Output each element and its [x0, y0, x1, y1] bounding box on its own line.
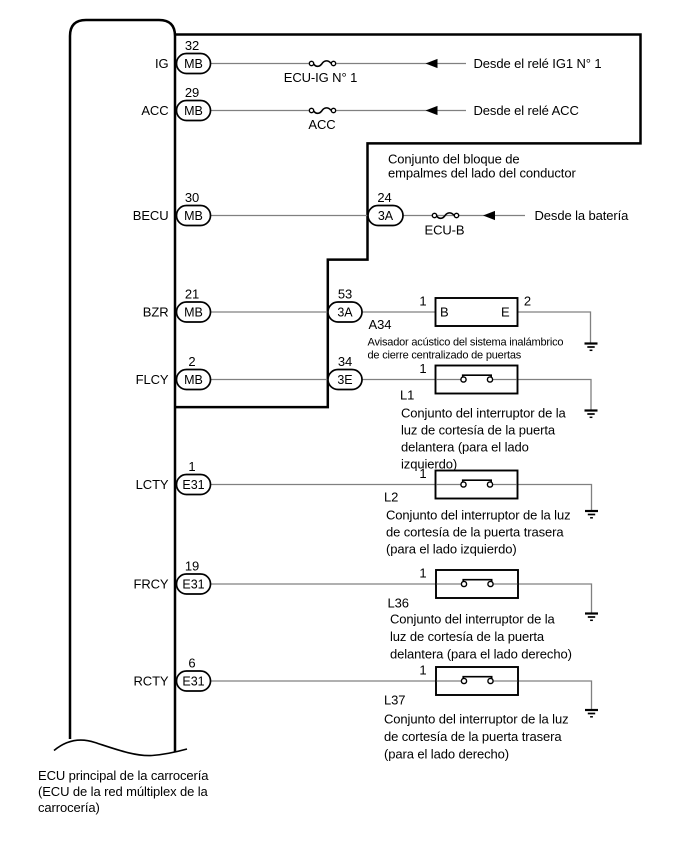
- connector oval MB (BZR pin 21): [177, 302, 211, 322]
- ground for A34: [585, 344, 598, 351]
- svg-text:3E: 3E: [337, 373, 352, 387]
- wire RCTY row right of L37 to ground drop: [493, 681, 591, 710]
- wire ACC row: [210, 110, 309, 112]
- svg-text:53: 53: [338, 287, 352, 302]
- svg-text:RCTY: RCTY: [134, 674, 169, 689]
- label ECU principal de la carrocería: [38, 768, 209, 815]
- wire FLCY row: [210, 379, 329, 381]
- wire RCTY row: [210, 680, 461, 682]
- svg-text:2: 2: [524, 294, 531, 309]
- svg-text:MB: MB: [184, 209, 203, 223]
- svg-text:1: 1: [419, 294, 426, 309]
- wire ACC row right of fuse: [337, 110, 467, 112]
- junction block outline (Conjunto del bloque de empalmes del lado del conductor): [175, 35, 641, 408]
- svg-text:MB: MB: [184, 306, 203, 320]
- svg-text:IG: IG: [155, 56, 169, 71]
- fuse ACC: [308, 108, 335, 132]
- svg-text:L37: L37: [384, 693, 405, 708]
- wire IG row right of fuse: [337, 63, 467, 65]
- svg-text:ECU-IG N° 1: ECU-IG N° 1: [284, 70, 357, 85]
- svg-text:LCTY: LCTY: [136, 477, 169, 492]
- svg-text:empalmes del lado del conducto: empalmes del lado del conductor: [388, 166, 576, 181]
- svg-text:1: 1: [419, 466, 426, 481]
- svg-text:32: 32: [185, 38, 199, 53]
- wire LCTY row right of L2 to ground drop: [493, 485, 592, 512]
- connector oval 3E (pin 34): [328, 370, 362, 390]
- svg-text:de cortesía de la puerta trase: de cortesía de la puerta trasera: [386, 525, 564, 540]
- connector oval E31 (FRCY pin 19): [177, 574, 211, 594]
- ECU block body outline (ECU principal de la carrocería): [70, 20, 175, 752]
- arrow from relay ACC: [426, 106, 438, 115]
- connector oval 3A (pin 24): [368, 206, 403, 226]
- switch L1 box: [436, 366, 518, 394]
- connector oval 3A (pin 53): [328, 302, 362, 322]
- fuse ECU-IG N° 1: [284, 61, 357, 85]
- wire FRCY row: [210, 583, 461, 585]
- label Conjunto del interruptor (L36): [390, 612, 572, 662]
- svg-text:Conjunto del interruptor de la: Conjunto del interruptor de la: [390, 612, 556, 627]
- svg-text:MB: MB: [184, 104, 203, 118]
- svg-text:FLCY: FLCY: [136, 372, 169, 387]
- label Avisador acústico: [368, 337, 564, 362]
- svg-text:L36: L36: [388, 596, 409, 611]
- svg-text:21: 21: [185, 287, 199, 302]
- wire BECU row: [210, 215, 368, 217]
- svg-text:Conjunto del bloque de: Conjunto del bloque de: [388, 152, 520, 167]
- svg-text:ACC: ACC: [308, 117, 335, 132]
- svg-text:Desde la batería: Desde la batería: [535, 208, 630, 223]
- svg-text:ECU-B: ECU-B: [425, 223, 465, 238]
- svg-text:BECU: BECU: [133, 208, 169, 223]
- svg-text:(para el lado izquierdo): (para el lado izquierdo): [386, 542, 517, 557]
- svg-text:delantera (para el lado: delantera (para el lado: [401, 440, 529, 455]
- svg-text:B: B: [440, 305, 449, 320]
- svg-text:1: 1: [419, 566, 426, 581]
- ground for L36: [585, 614, 598, 621]
- wavy torn bottom edge of ECU block: [54, 740, 187, 755]
- wire FLCY row inside/right of L1 to ground drop: [493, 380, 591, 411]
- svg-text:1: 1: [188, 459, 195, 474]
- wire LCTY row: [210, 484, 461, 486]
- fuse ECU-B: [425, 213, 465, 238]
- label Conjunto del interruptor (L1): [401, 406, 567, 472]
- svg-text:izquierdo): izquierdo): [401, 457, 457, 472]
- svg-text:E31: E31: [182, 675, 204, 689]
- connector oval E31 (LCTY pin 1): [177, 475, 211, 495]
- svg-text:MB: MB: [184, 57, 203, 71]
- wire BZR row from 3A to buzzer: [362, 311, 436, 313]
- svg-text:BZR: BZR: [143, 305, 169, 320]
- svg-text:29: 29: [185, 85, 199, 100]
- connector oval MB (ACC pin 29): [177, 101, 211, 121]
- connector oval E31 (RCTY pin 6): [177, 671, 211, 691]
- wire BZR row from buzzer to ground drop: [518, 312, 591, 343]
- svg-text:Avisador acústico del sistema: Avisador acústico del sistema inalámbric…: [368, 337, 564, 349]
- svg-text:2: 2: [188, 354, 195, 369]
- svg-text:delantera (para el lado derech: delantera (para el lado derecho): [390, 647, 572, 662]
- svg-text:luz de cortesía de la puerta: luz de cortesía de la puerta: [390, 629, 545, 644]
- svg-text:E: E: [501, 305, 510, 320]
- ground for L2: [585, 511, 598, 518]
- svg-text:de cortesía de la puerta trase: de cortesía de la puerta trasera: [384, 729, 562, 744]
- svg-text:ECU principal de la carrocería: ECU principal de la carrocería: [38, 768, 209, 783]
- svg-text:MB: MB: [184, 373, 203, 387]
- arrow from battery: [483, 211, 495, 220]
- wire FRCY row right of L36 to ground drop: [493, 584, 591, 613]
- wire BECU row right of 3A: [403, 215, 525, 217]
- svg-text:luz de cortesía de la puerta: luz de cortesía de la puerta: [401, 423, 556, 438]
- connector oval MB (BECU pin 30): [177, 206, 211, 226]
- svg-text:FRCY: FRCY: [134, 577, 169, 592]
- label Conjunto del interruptor (L2): [386, 508, 571, 557]
- switch L2 box: [436, 471, 518, 499]
- svg-text:6: 6: [188, 656, 195, 671]
- svg-text:de cierre centralizado de puer: de cierre centralizado de puertas: [368, 350, 522, 362]
- ground for L37: [585, 710, 598, 717]
- svg-text:24: 24: [377, 190, 391, 205]
- wire IG row: [210, 63, 309, 65]
- wire FLCY row from 3E to switch L1: [362, 379, 461, 381]
- svg-text:(ECU de la red múltiplex de la: (ECU de la red múltiplex de la: [38, 784, 209, 799]
- svg-text:A34: A34: [369, 317, 392, 332]
- svg-text:(para el lado derecho): (para el lado derecho): [384, 747, 509, 762]
- svg-text:Desde el relé ACC: Desde el relé ACC: [474, 103, 579, 118]
- svg-text:19: 19: [185, 559, 199, 574]
- label Conjunto del bloque de empalmes del lado del conductor: [388, 152, 576, 181]
- switch L36 box: [436, 570, 518, 598]
- arrow from relay IG1: [426, 59, 438, 68]
- wire BZR row: [210, 311, 329, 313]
- svg-text:Conjunto del interruptor de la: Conjunto del interruptor de la luz: [384, 712, 569, 727]
- svg-text:Conjunto del interruptor de la: Conjunto del interruptor de la: [401, 406, 567, 421]
- svg-text:1: 1: [419, 663, 426, 678]
- svg-text:ACC: ACC: [141, 103, 168, 118]
- svg-text:34: 34: [338, 354, 352, 369]
- svg-text:L1: L1: [400, 388, 414, 403]
- svg-text:carrocería): carrocería): [38, 800, 100, 815]
- svg-text:30: 30: [185, 190, 199, 205]
- svg-text:Conjunto del interruptor de la: Conjunto del interruptor de la luz: [386, 508, 571, 523]
- connector oval MB (IG pin 32): [177, 54, 211, 74]
- svg-text:3A: 3A: [337, 306, 353, 320]
- svg-text:E31: E31: [182, 578, 204, 592]
- svg-text:E31: E31: [182, 478, 204, 492]
- svg-text:3A: 3A: [378, 209, 394, 223]
- svg-text:L2: L2: [384, 490, 398, 505]
- label Conjunto del interruptor (L37): [384, 712, 569, 762]
- switch L37 box: [436, 667, 518, 695]
- buzzer A34 box with terminals B and E: [436, 298, 518, 326]
- connector oval MB (FLCY pin 2): [177, 370, 211, 390]
- svg-text:Desde el relé IG1 N° 1: Desde el relé IG1 N° 1: [474, 56, 602, 71]
- ground for L1: [585, 411, 598, 418]
- svg-text:1: 1: [419, 361, 426, 376]
